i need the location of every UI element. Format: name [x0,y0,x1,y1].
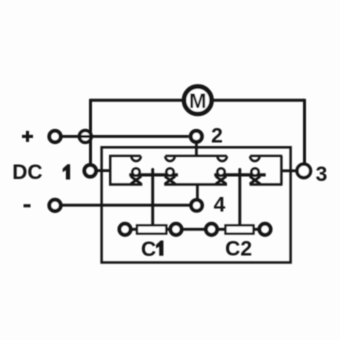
switch S1 top edge segment right [250,155,282,157]
switch S1 contact support bowtie 1 [131,176,141,184]
wire: left vertical from motor wire down to node 1 [89,99,92,164]
switch S1 left bridge bar [129,173,178,176]
terminal: capacitor row 3 [206,224,217,235]
wire: riser from left bridge down to C1 [151,169,154,225]
terminal: capacitor row 4 [259,224,270,235]
switch S1 fixed contact arc 4 [250,156,259,161]
motor U1 [184,86,212,114]
label plus [22,131,33,142]
wire: node 1 to switch block [97,169,111,172]
svg-text:C2: C2 [225,238,252,261]
switch S1 fixed contact arc 1 [131,156,140,161]
svg-text:3: 3 [316,163,328,186]
switch S1 bottom edge segment middle [164,183,227,185]
node 4 [191,200,202,211]
wire: capacitor row [125,228,265,231]
node 1 [84,165,96,177]
wire: node 2 stub down to switch top [195,143,198,158]
svg-text:M: M [189,90,207,113]
wire: riser from right bridge down to C2 [238,169,241,225]
switch S1 movable contact ring 4 [251,168,258,175]
switch S1 top edge segment middle [165,155,227,157]
wire: minus terminal to node 4 [62,204,190,207]
switch S1 movable contact ring 2 [166,168,173,175]
terminal: capacitor row 2 [170,224,181,235]
svg-text:2: 2 [211,125,223,148]
switch S1 movable contact ring 1 [132,168,139,175]
switch S1 contact block right wall [280,156,282,185]
junction: plus feed junction circle [79,130,91,142]
switch S1 contact support bowtie 3 [216,176,226,184]
wire: junction vertical overlay [89,129,92,144]
wire: top horizontal wire motor supply [91,99,305,102]
wire: plus terminal to node 2 [62,135,189,138]
switch S1 contact support bowtie 4 [250,176,260,184]
capacitor C1 body [137,225,166,233]
svg-text:C: C [141,238,156,261]
switch S1 fixed contact arc 2 [165,156,174,161]
switch S1 contact support bowtie 2 [165,176,175,184]
switch S1 movable contact ring 3 [217,168,224,175]
switch module outline box [102,147,291,262]
wire: right vertical from motor wire down to node 3 [303,99,306,163]
node 2 [191,131,202,142]
svg-text:DC: DC [12,161,42,184]
switch S1 bottom edge segment left [109,183,142,185]
terminal: DC minus [49,200,60,211]
switch S1 top edge segment left [109,155,141,157]
wire: switch block to node 3 [281,169,296,172]
switch S1 fixed contact arc 3 [218,156,227,161]
switch S1 right bridge bar [214,173,265,176]
switch S1 bottom edge segment right [250,183,283,185]
svg-text:4: 4 [214,194,226,217]
terminal: DC plus [49,131,60,142]
node 3 [297,164,311,178]
capacitor C2 body [226,225,254,233]
switch S1 contact block left wall [109,156,111,185]
label minus [24,204,31,207]
label 1 [63,164,70,179]
terminal: capacitor row 1 [119,224,130,235]
wire: node 4 stub up to switch block [196,185,199,200]
